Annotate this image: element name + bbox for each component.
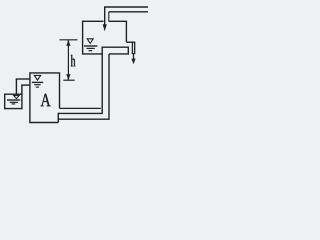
overflow spout lip (126, 41, 135, 43)
cup rim (4, 93, 23, 95)
cup pipe left wall (15, 79, 17, 94)
pipe bottom line L3 + main pipe right wall (58, 54, 109, 119)
cup pipe right wall joining cup right wall (21, 85, 23, 109)
hatch 2 header tank (87, 47, 95, 49)
header tank top right segment (109, 20, 128, 22)
inlet pipe bottom line (109, 11, 148, 13)
branch right wall (127, 47, 129, 54)
water symbol header tank: triangle (87, 39, 93, 44)
main pipe left wall + pipe top line L2 (58, 47, 102, 113)
cup pipe bottom line (21, 84, 30, 86)
inflow arrow shaft (104, 7, 106, 25)
header tank right wall (125, 21, 127, 42)
inlet pipe top line (104, 6, 148, 8)
h dimension bottom extension line (63, 79, 74, 81)
overflow pipe left wall (131, 42, 133, 54)
cup bottom (4, 108, 23, 110)
pipe mouth wall inside tank A (57, 113, 59, 123)
branch top line L1 (102, 46, 130, 48)
hatch 3 header tank (89, 50, 93, 52)
header tank top left segment (82, 20, 104, 22)
h dimension line (67, 40, 69, 80)
water symbol tank A: triangle (34, 75, 40, 80)
h dimension top arrowhead (66, 40, 70, 46)
water line tank A (32, 81, 43, 83)
hatch 3 tank A (36, 86, 39, 88)
overflow arrowhead (131, 59, 135, 65)
header tank left wall (82, 21, 84, 55)
label h (71, 55, 76, 66)
water line cup (7, 99, 20, 101)
tank A outline (30, 73, 60, 123)
pipe upper line L1 into tank A (60, 107, 101, 109)
cup pipe top line (16, 78, 30, 80)
hatch 2 cup (10, 101, 18, 103)
hatch 2 tank A (34, 84, 40, 86)
overflow arrow shaft (133, 53, 135, 60)
h dimension bottom arrowhead (66, 74, 70, 80)
hatch 3 cup (12, 103, 16, 105)
cup left wall (4, 94, 6, 109)
h dimension top extension line (60, 39, 78, 41)
branch bottom line L2 (109, 53, 129, 55)
header tank bottom left (83, 53, 103, 55)
inlet pipe right wall stub (108, 12, 110, 21)
water line header tank (84, 45, 97, 47)
water symbol cup: triangle (14, 95, 20, 98)
label A (41, 94, 51, 106)
inflow arrowhead (103, 24, 107, 31)
overflow pipe right wall (134, 42, 136, 54)
